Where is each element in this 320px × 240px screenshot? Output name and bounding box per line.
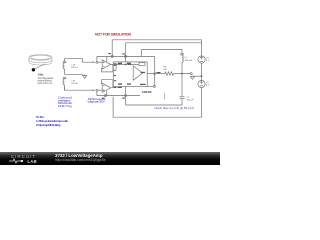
svg-text:V1: V1	[206, 57, 209, 59]
svg-text:9 V: 9 V	[206, 85, 210, 87]
svg-text:voltage gain 2000: voltage gain 2000	[88, 100, 105, 104]
svg-text:AD8429: AD8429	[142, 90, 152, 94]
svg-text:100 µF: 100 µF	[187, 100, 195, 102]
svg-text:V2: V2	[206, 82, 209, 84]
svg-text:2. Op Amp RF limiting: 2. Op Amp RF limiting	[36, 123, 61, 127]
svg-text:L2: L2	[185, 57, 188, 59]
svg-text:Notch filter (L2,C1) @ 50.2 Hz: Notch filter (L2,C1) @ 50.2 Hz	[155, 106, 195, 110]
svg-text:1 kΩ: 1 kΩ	[163, 69, 168, 71]
svg-text:R1: R1	[164, 66, 168, 68]
svg-text:9 V: 9 V	[206, 60, 210, 62]
svg-text:parts of the coil: parts of the coil	[37, 81, 52, 85]
svg-text:110 mH: 110 mH	[71, 83, 78, 85]
svg-text:NOT FOR SIMULATION: NOT FOR SIMULATION	[95, 32, 131, 36]
svg-text:C1: C1	[187, 97, 191, 99]
svg-text:110 mH: 110 mH	[71, 67, 78, 69]
svg-text:2.5 dia, 7" long: 2.5 dia, 7" long	[58, 104, 72, 108]
svg-text:180 mH: 180 mH	[185, 60, 193, 62]
